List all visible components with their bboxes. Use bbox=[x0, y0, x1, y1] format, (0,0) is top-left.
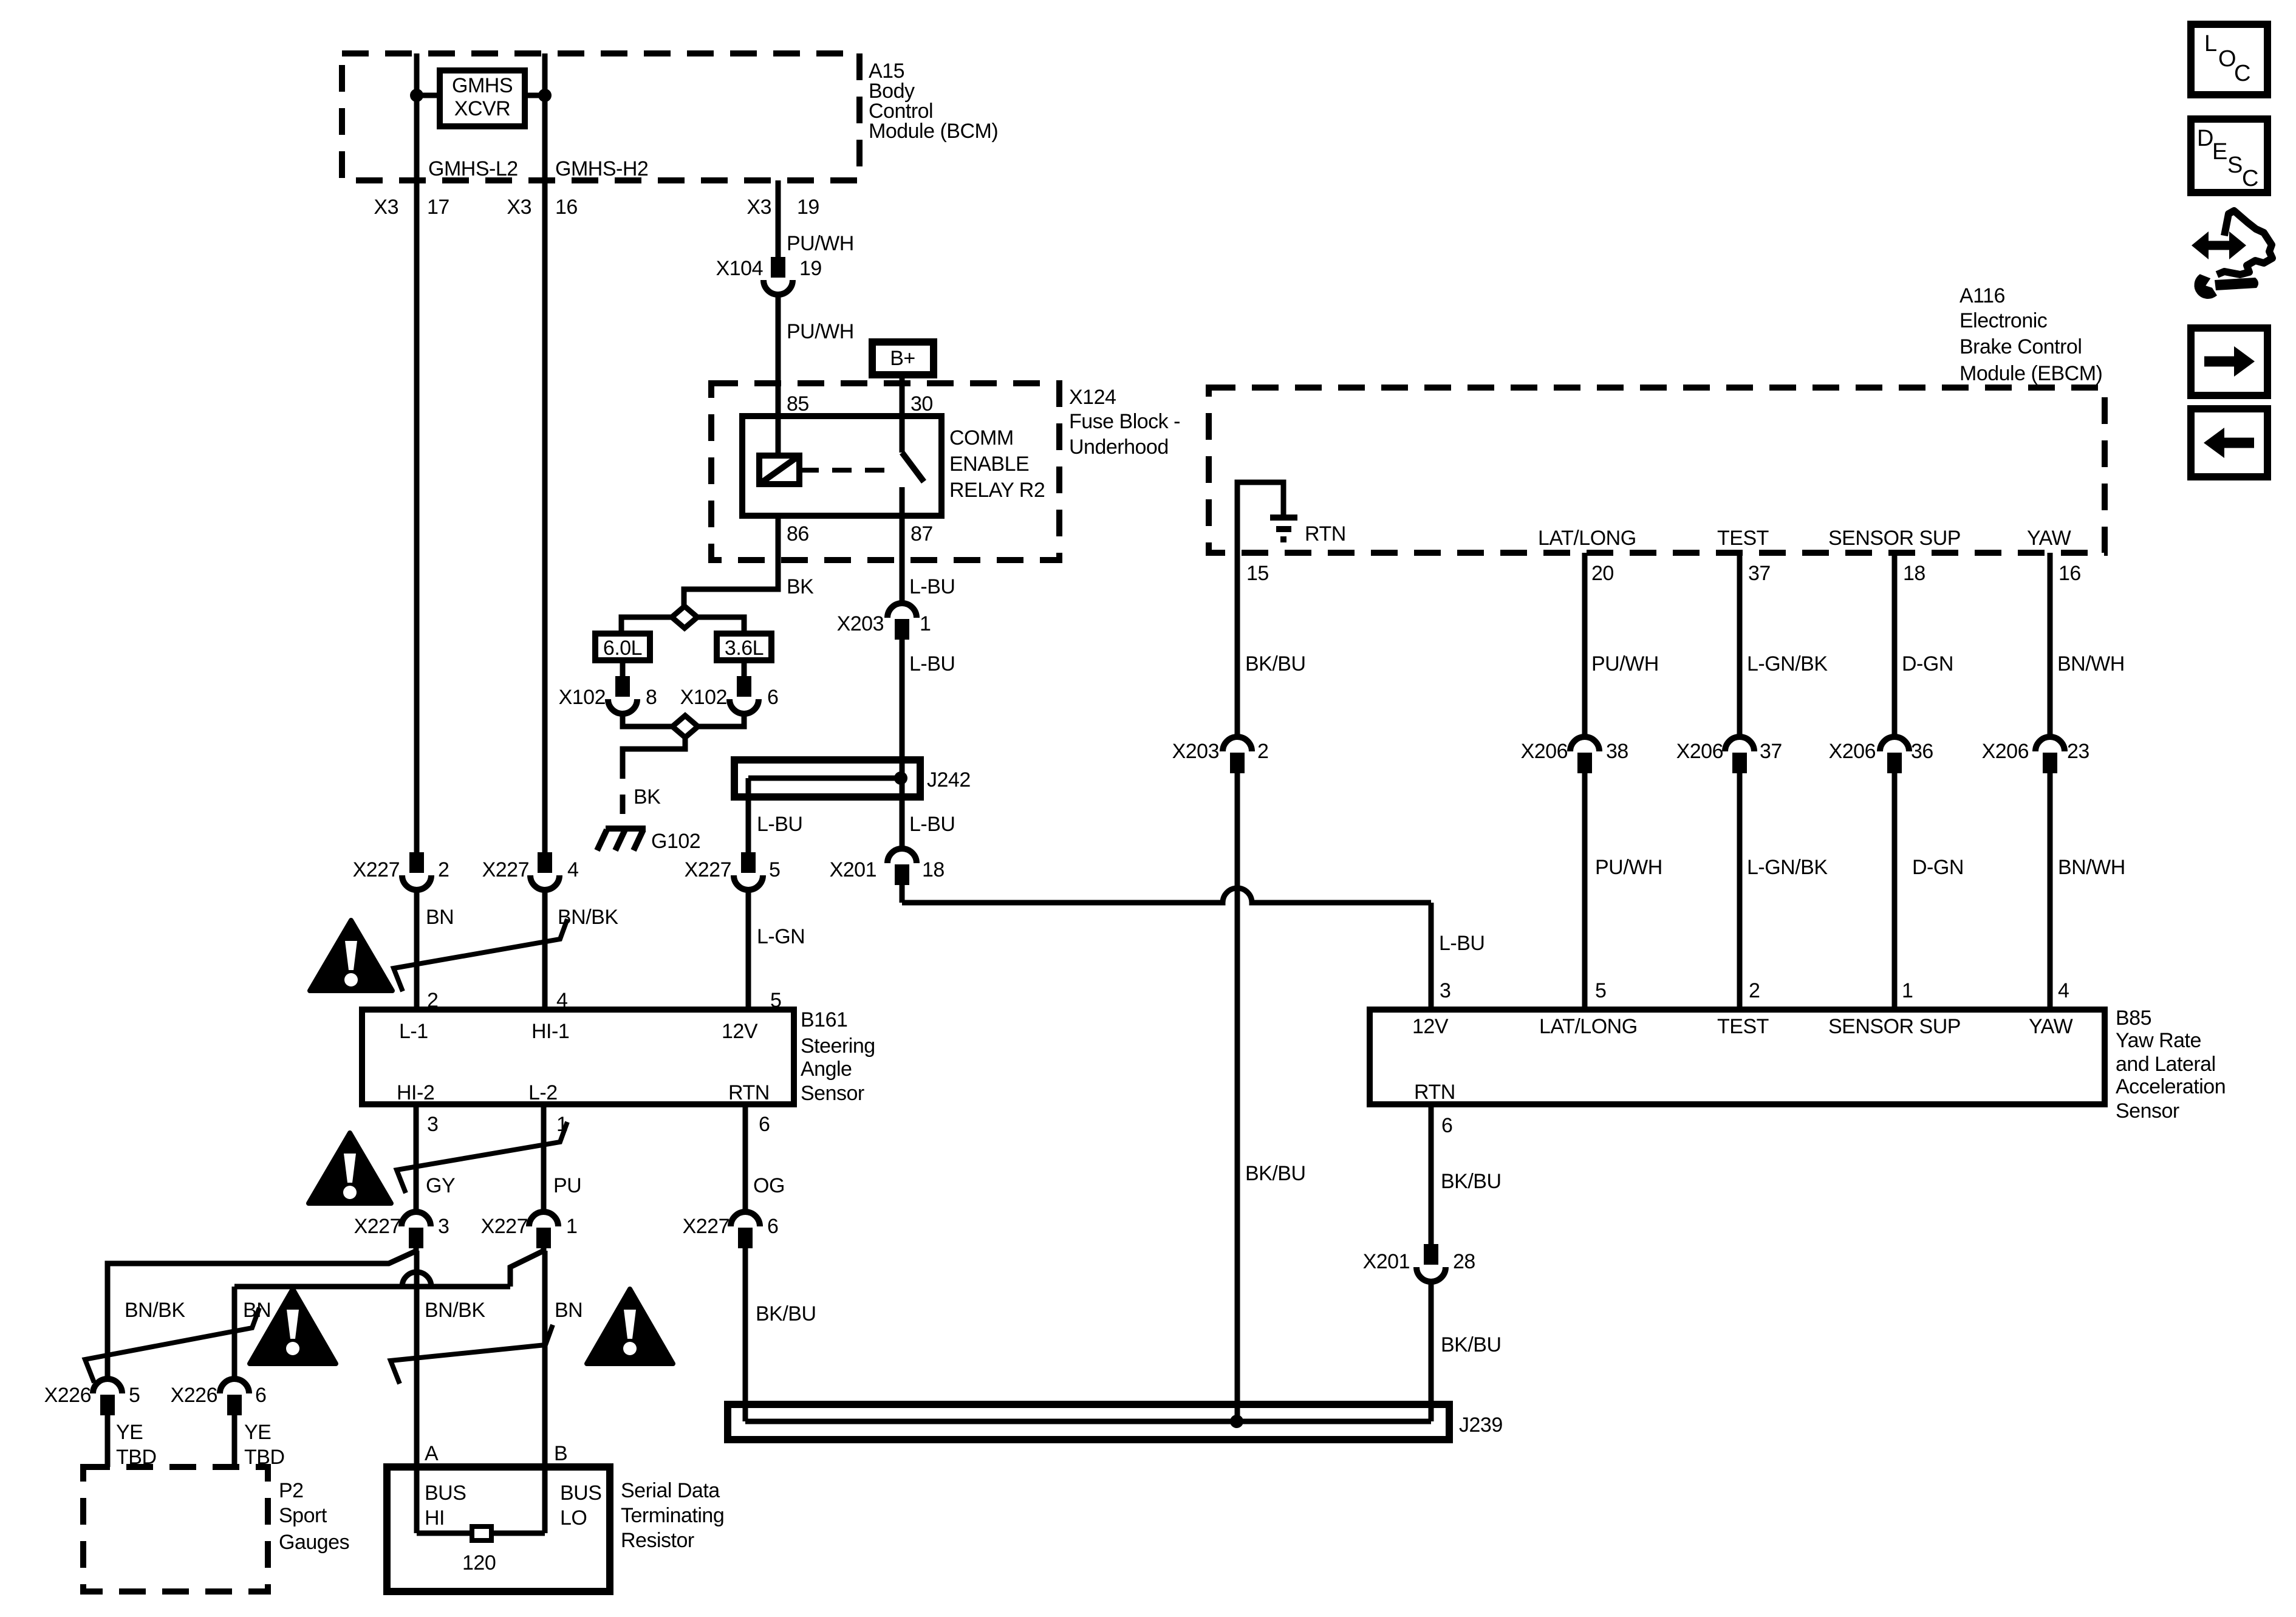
connector X206 pin 36 bbox=[1880, 737, 1909, 751]
svg-text:J239: J239 bbox=[1459, 1414, 1503, 1437]
svg-text:4: 4 bbox=[567, 858, 578, 881]
wire D-GN EBCM 18 to X206 pin 36 bbox=[1892, 553, 1898, 738]
connector X206 pin 37 bbox=[1725, 737, 1754, 751]
svg-text:BN/WH: BN/WH bbox=[2057, 652, 2125, 675]
connector X206 pin 23 bbox=[2035, 737, 2065, 751]
EBCM internal RTN wire to ground bbox=[1237, 482, 1283, 553]
option box 6.0L bbox=[595, 634, 650, 660]
svg-text:6: 6 bbox=[1441, 1114, 1452, 1137]
svg-text:BUS: BUS bbox=[560, 1482, 601, 1505]
connector X206 pin 38 bbox=[1570, 737, 1599, 751]
svg-text:BN/BK: BN/BK bbox=[425, 1299, 485, 1322]
wire BK/BU yaw RTN to X201 pin 28 bbox=[1429, 1104, 1434, 1245]
junction dot J242 bbox=[894, 771, 907, 785]
label X203 2 bbox=[1172, 740, 1269, 763]
connector X201 pin 28 bbox=[1424, 1244, 1438, 1265]
svg-text:6: 6 bbox=[255, 1384, 266, 1407]
wire BN/BK X227-3 main to resistor A bbox=[414, 1251, 420, 1533]
pin name BUS LO bbox=[560, 1482, 601, 1530]
svg-text:L-BU: L-BU bbox=[757, 813, 802, 836]
relay coil bbox=[759, 456, 799, 484]
svg-text:L-2: L-2 bbox=[528, 1081, 558, 1104]
wire BN X227-2 to steering L-1 bbox=[414, 892, 420, 1010]
wire PU/WH EBCM 20 to X206 pin 38 bbox=[1582, 553, 1588, 738]
connector X226 pin 6 bbox=[220, 1379, 249, 1393]
wire B+ to relay pin 30 bbox=[900, 375, 905, 453]
wire L-BU X201-18 across to yaw sensor 12V (hops BK/BU) bbox=[902, 887, 1431, 1010]
svg-text:BK/BU: BK/BU bbox=[1245, 1162, 1306, 1185]
label A116 Electronic Brake Control Module (EBCM) bbox=[1959, 284, 2102, 385]
svg-text:16: 16 bbox=[2059, 562, 2081, 585]
wire PU/WH X206-38 to yaw LAT/LONG bbox=[1582, 776, 1588, 1010]
svg-text:and Lateral: and Lateral bbox=[2116, 1053, 2216, 1076]
label X104 19 bbox=[716, 257, 822, 280]
wire L-BU J242 left branch to X227 pin 5 bbox=[746, 778, 751, 852]
label X227 5 bbox=[685, 858, 781, 881]
connector X227 pin 1 bbox=[529, 1212, 558, 1226]
svg-text:X206: X206 bbox=[1829, 740, 1876, 763]
connector X201 pin 18 bbox=[887, 849, 917, 863]
component B85 Yaw Rate and Lateral Acceleration Sensor box bbox=[1370, 1010, 2105, 1104]
svg-text:X206: X206 bbox=[1982, 740, 2029, 763]
svg-text:86: 86 bbox=[787, 522, 809, 545]
svg-text:5: 5 bbox=[769, 858, 780, 881]
wire PU/WH BCM X3-19 to X104 bbox=[776, 180, 781, 257]
svg-text:3: 3 bbox=[438, 1215, 449, 1238]
svg-text:Gauges: Gauges bbox=[279, 1531, 349, 1554]
svg-text:PU/WH: PU/WH bbox=[1595, 856, 1662, 879]
svg-text:L-GN: L-GN bbox=[757, 925, 805, 948]
svg-text:17: 17 bbox=[427, 196, 449, 219]
wire BK splice to ground G102 (dashed) bbox=[623, 737, 685, 827]
svg-text:C: C bbox=[2242, 166, 2258, 191]
label X206 23 bbox=[1982, 740, 2089, 763]
svg-text:87: 87 bbox=[911, 522, 933, 545]
wire BN/BK X227-4 to steering HI-1 bbox=[542, 892, 548, 1010]
junction block J239 bbox=[728, 1404, 1449, 1440]
wire BN X227-1 main to resistor B bbox=[542, 1251, 548, 1533]
wire 3.6L to X102 pin 6 bbox=[742, 660, 747, 676]
icon LOC box bbox=[2191, 24, 2267, 95]
svg-text:COMM: COMM bbox=[949, 426, 1014, 450]
svg-text:Fuse Block -: Fuse Block - bbox=[1069, 410, 1180, 433]
svg-text:PU/WH: PU/WH bbox=[787, 232, 854, 255]
wire L-GN/BK EBCM 37 to X206 pin 37 bbox=[1737, 553, 1743, 738]
label X124 Fuse Block - Underhood bbox=[1069, 386, 1180, 459]
svg-text:L-1: L-1 bbox=[399, 1020, 428, 1043]
twisted pair symbol 1 bbox=[394, 919, 567, 991]
wire PU/WH X104 to relay coil pin 85 bbox=[776, 297, 781, 456]
svg-text:37: 37 bbox=[1748, 562, 1771, 585]
wire to 6.0L option bbox=[621, 617, 672, 635]
svg-text:OG: OG bbox=[753, 1174, 785, 1197]
svg-text:X227: X227 bbox=[481, 1215, 528, 1238]
svg-text:YE: YE bbox=[116, 1421, 143, 1444]
svg-text:LAT/LONG: LAT/LONG bbox=[1539, 1015, 1638, 1038]
svg-text:TEST: TEST bbox=[1717, 1015, 1769, 1038]
svg-text:YAW: YAW bbox=[2027, 527, 2071, 550]
svg-text:BN: BN bbox=[555, 1299, 583, 1322]
svg-text:C: C bbox=[2234, 61, 2250, 86]
svg-text:O: O bbox=[2218, 46, 2236, 72]
icon back arrow box bbox=[2191, 409, 2267, 477]
svg-text:X206: X206 bbox=[1521, 740, 1568, 763]
svg-text:X206: X206 bbox=[1676, 740, 1723, 763]
svg-text:6: 6 bbox=[767, 686, 778, 709]
svg-text:8: 8 bbox=[646, 686, 657, 709]
svg-text:XCVR: XCVR bbox=[454, 97, 510, 120]
svg-text:RTN: RTN bbox=[1414, 1081, 1455, 1104]
svg-text:X3: X3 bbox=[507, 196, 531, 219]
svg-text:2: 2 bbox=[438, 858, 449, 881]
wire L-BU X203-1 to J242 bbox=[900, 642, 905, 778]
wire label YE TBD right bbox=[244, 1421, 285, 1469]
junction dot GMHS-H2 to XCVR bbox=[525, 89, 552, 102]
svg-text:6.0L: 6.0L bbox=[603, 637, 642, 660]
svg-text:Yaw Rate: Yaw Rate bbox=[2116, 1029, 2201, 1052]
svg-text:2: 2 bbox=[1257, 740, 1268, 763]
connector X203 pin 2 bbox=[1223, 737, 1252, 751]
svg-text:L-BU: L-BU bbox=[909, 575, 955, 598]
svg-text:Module (EBCM): Module (EBCM) bbox=[1959, 362, 2102, 385]
svg-text:19: 19 bbox=[797, 196, 819, 219]
svg-text:BN/BK: BN/BK bbox=[125, 1299, 185, 1322]
svg-text:GY: GY bbox=[426, 1174, 455, 1197]
wire BK/BU EBCM 15 to X203 pin 2 bbox=[1235, 553, 1240, 738]
svg-text:E: E bbox=[2212, 139, 2227, 165]
svg-text:L-BU: L-BU bbox=[1439, 932, 1485, 955]
svg-text:X124: X124 bbox=[1069, 386, 1116, 409]
svg-text:RTN: RTN bbox=[728, 1081, 770, 1104]
label B85 Yaw Rate and Lateral Acceleration Sensor bbox=[2116, 1007, 2226, 1123]
label X102 6 bbox=[680, 686, 779, 709]
svg-text:PU/WH: PU/WH bbox=[1591, 652, 1659, 675]
svg-text:Underhood: Underhood bbox=[1069, 436, 1169, 459]
svg-text:X102: X102 bbox=[559, 686, 606, 709]
label X102 8 bbox=[559, 686, 657, 709]
svg-text:Steering: Steering bbox=[801, 1034, 875, 1058]
module P2 Sport Gauges dashed outline bbox=[83, 1467, 268, 1591]
connector X227 pin 2 bbox=[409, 852, 424, 873]
label X206 38 bbox=[1521, 740, 1628, 763]
label X227 3 bbox=[354, 1215, 449, 1238]
svg-text:Serial Data: Serial Data bbox=[621, 1479, 720, 1502]
svg-text:L-BU: L-BU bbox=[909, 813, 955, 836]
connector X227 pin 6 bbox=[731, 1212, 760, 1226]
relay coil-to-switch dashed link bbox=[799, 468, 892, 473]
svg-text:X227: X227 bbox=[482, 858, 529, 881]
wire GMHS-H2 (BN/BK) BCM X3-16 down to X227 pin 4 bbox=[542, 53, 548, 852]
svg-text:J242: J242 bbox=[927, 768, 971, 791]
svg-text:Resistor: Resistor bbox=[621, 1529, 694, 1552]
svg-text:4: 4 bbox=[2058, 979, 2069, 1002]
connector X102 pin 6 bbox=[737, 676, 751, 697]
svg-text:3: 3 bbox=[1440, 979, 1450, 1002]
wire BK/BU X201-28 to J239 bbox=[1429, 1284, 1434, 1421]
wire L-BU relay pin 87 to X203 pin 1 bbox=[900, 516, 905, 604]
label X227 1 bbox=[481, 1215, 578, 1238]
svg-text:12V: 12V bbox=[722, 1020, 758, 1043]
svg-text:BK/BU: BK/BU bbox=[756, 1302, 816, 1325]
svg-text:23: 23 bbox=[2067, 740, 2089, 763]
label X226 5 bbox=[44, 1384, 140, 1407]
wire L-BU J242 down to X201 pin 18 bbox=[900, 778, 905, 850]
svg-text:Angle: Angle bbox=[801, 1058, 852, 1081]
svg-text:LAT/LONG: LAT/LONG bbox=[1538, 527, 1636, 550]
component Serial Data Terminating Resistor box bbox=[387, 1467, 610, 1591]
svg-text:HI: HI bbox=[425, 1506, 445, 1530]
wire GMHS-L2 (BN) BCM X3-17 down to X227 pin 2 bbox=[414, 53, 420, 852]
svg-text:L-GN/BK: L-GN/BK bbox=[1747, 652, 1828, 675]
svg-text:LO: LO bbox=[560, 1506, 587, 1530]
svg-text:1: 1 bbox=[920, 612, 931, 635]
svg-text:Module (BCM): Module (BCM) bbox=[869, 120, 998, 143]
wire YE/TBD X226-5 to P2 bbox=[105, 1418, 111, 1467]
wire 6.0L to X102 pin 8 bbox=[620, 660, 626, 676]
icon harness routing (arrows and wrench) bbox=[2192, 211, 2272, 298]
svg-text:X227: X227 bbox=[354, 1215, 401, 1238]
svg-text:5: 5 bbox=[129, 1384, 140, 1407]
svg-text:HI-1: HI-1 bbox=[531, 1020, 569, 1043]
svg-text:37: 37 bbox=[1760, 740, 1782, 763]
icon DESC box bbox=[2191, 119, 2267, 193]
svg-text:L-GN/BK: L-GN/BK bbox=[1747, 856, 1828, 879]
svg-text:G102: G102 bbox=[651, 830, 700, 853]
svg-text:TEST: TEST bbox=[1717, 527, 1769, 550]
svg-text:BK/BU: BK/BU bbox=[1441, 1170, 1502, 1193]
svg-text:X203: X203 bbox=[837, 612, 884, 635]
svg-text:YAW: YAW bbox=[2029, 1015, 2073, 1038]
svg-text:120: 120 bbox=[462, 1551, 496, 1574]
svg-text:PU/WH: PU/WH bbox=[787, 320, 854, 343]
label X203 1 bbox=[837, 612, 931, 635]
svg-text:BK: BK bbox=[634, 785, 661, 808]
label X206 36 bbox=[1829, 740, 1933, 763]
svg-text:B161: B161 bbox=[801, 1008, 847, 1031]
svg-text:YE: YE bbox=[244, 1421, 271, 1444]
wire L-GN/BK X206-37 to yaw TEST bbox=[1737, 776, 1743, 1010]
svg-text:3: 3 bbox=[427, 1113, 438, 1136]
svg-text:28: 28 bbox=[1453, 1250, 1475, 1273]
svg-text:38: 38 bbox=[1606, 740, 1628, 763]
svg-text:X201: X201 bbox=[1363, 1250, 1410, 1273]
svg-text:D: D bbox=[2197, 126, 2213, 151]
junction block J242 bbox=[734, 760, 920, 797]
svg-text:X203: X203 bbox=[1172, 740, 1219, 763]
wire GY steering HI-2 to X227 pin 3 bbox=[414, 1104, 419, 1213]
label Serial Data Terminating Resistor bbox=[621, 1479, 724, 1552]
connector X203 pin 1 bbox=[887, 603, 917, 618]
svg-text:2: 2 bbox=[1749, 979, 1760, 1002]
svg-text:X227: X227 bbox=[353, 858, 400, 881]
svg-text:36: 36 bbox=[1911, 740, 1933, 763]
module A116 EBCM dashed outline bbox=[1209, 388, 2105, 553]
wire OG steering RTN to X227 pin 6 bbox=[743, 1104, 748, 1213]
warning triangle 3 bbox=[250, 1289, 336, 1364]
splice diamond lower bbox=[672, 716, 698, 737]
svg-text:X201: X201 bbox=[830, 858, 876, 881]
svg-text:BK/BU: BK/BU bbox=[1441, 1333, 1502, 1356]
connector X227 pin 4 bbox=[538, 852, 552, 873]
twisted pair symbol 3 bbox=[85, 1308, 259, 1383]
connector X227 pin 5 bbox=[741, 852, 756, 873]
svg-text:BUS: BUS bbox=[425, 1482, 466, 1505]
svg-text:SENSOR SUP: SENSOR SUP bbox=[1828, 527, 1961, 550]
resistor element 120 ohm bbox=[417, 1526, 545, 1540]
svg-text:RELAY R2: RELAY R2 bbox=[949, 479, 1045, 502]
svg-text:16: 16 bbox=[555, 196, 578, 219]
svg-text:D-GN: D-GN bbox=[1912, 856, 1964, 879]
svg-text:X3: X3 bbox=[374, 196, 398, 219]
connector X227 pin 3 bbox=[401, 1212, 431, 1226]
junction dot GMHS-L2 to XCVR bbox=[410, 89, 440, 102]
svg-text:12V: 12V bbox=[1412, 1015, 1449, 1038]
svg-text:30: 30 bbox=[911, 392, 933, 415]
svg-text:SENSOR SUP: SENSOR SUP bbox=[1828, 1015, 1961, 1038]
wire BN/WH X206-23 to yaw YAW bbox=[2048, 776, 2053, 1010]
svg-text:X226: X226 bbox=[171, 1384, 217, 1407]
svg-text:B+: B+ bbox=[890, 347, 915, 370]
svg-text:20: 20 bbox=[1591, 562, 1614, 585]
svg-text:BK: BK bbox=[787, 575, 814, 598]
svg-text:19: 19 bbox=[799, 257, 822, 280]
pin label X3 19 bbox=[747, 196, 819, 219]
svg-text:85: 85 bbox=[787, 392, 809, 415]
svg-text:Brake Control: Brake Control bbox=[1959, 335, 2082, 358]
label B161 Steering Angle Sensor bbox=[801, 1008, 875, 1105]
label P2 Sport Gauges bbox=[279, 1479, 349, 1554]
option box 3.6L bbox=[717, 634, 771, 660]
svg-text:Sport: Sport bbox=[279, 1504, 327, 1527]
splice diamond upper (engine variant) bbox=[672, 606, 697, 628]
twisted pair symbol 2 bbox=[397, 1122, 567, 1193]
connector X104 pin 19 bbox=[771, 257, 785, 278]
svg-text:1: 1 bbox=[1902, 979, 1913, 1002]
svg-text:P2: P2 bbox=[279, 1479, 304, 1502]
svg-text:6: 6 bbox=[759, 1113, 770, 1136]
label X201 18 bbox=[830, 858, 945, 881]
component B161 Steering Angle Sensor box bbox=[362, 1010, 794, 1104]
icon forward arrow box bbox=[2191, 328, 2267, 395]
wire D-GN X206-36 to yaw SENSOR SUP bbox=[1892, 776, 1898, 1010]
wire YE/TBD X226-6 to P2 bbox=[232, 1418, 237, 1467]
relay switch arm pin 30 to 87 bbox=[902, 453, 924, 516]
svg-text:X226: X226 bbox=[44, 1384, 91, 1407]
svg-text:X102: X102 bbox=[680, 686, 727, 709]
svg-text:5: 5 bbox=[1595, 979, 1606, 1002]
svg-text:A116: A116 bbox=[1959, 284, 2005, 307]
svg-text:Acceleration: Acceleration bbox=[2116, 1075, 2226, 1098]
pin name BUS HI bbox=[425, 1482, 466, 1530]
pin label X3 17 bbox=[374, 196, 449, 219]
ground symbol inside EBCM bbox=[1270, 518, 1297, 539]
warning triangle 2 bbox=[309, 1133, 391, 1203]
svg-text:BN/WH: BN/WH bbox=[2058, 856, 2125, 879]
wire PU steering L-2 to X227 pin 1 bbox=[541, 1104, 547, 1213]
pin label X3 16 bbox=[507, 196, 577, 219]
label X227 6 bbox=[683, 1215, 779, 1238]
wire to 3.6L option bbox=[697, 617, 744, 635]
svg-text:D-GN: D-GN bbox=[1902, 652, 1953, 675]
label X201 28 bbox=[1363, 1250, 1475, 1273]
wire label YE TBD left bbox=[116, 1421, 157, 1469]
svg-text:3.6L: 3.6L bbox=[725, 637, 764, 660]
relay R2 COMM ENABLE RELAY box bbox=[742, 416, 941, 516]
wire BK/BU X203-2 down to J239 bbox=[1235, 776, 1240, 1421]
svg-text:15: 15 bbox=[1246, 562, 1269, 585]
module A15 Body Control Module (BCM) dashed outline bbox=[342, 53, 859, 180]
wire BN/BK X227-3 branch to X226 pin 5 bbox=[108, 1251, 417, 1380]
svg-text:GMHS-H2: GMHS-H2 bbox=[555, 157, 648, 180]
svg-text:X3: X3 bbox=[747, 196, 771, 219]
svg-text:B: B bbox=[554, 1442, 567, 1465]
svg-text:18: 18 bbox=[1903, 562, 1925, 585]
ground G102 chassis ground symbol bbox=[597, 829, 646, 850]
svg-text:L: L bbox=[2204, 31, 2217, 56]
svg-text:Sensor: Sensor bbox=[801, 1082, 864, 1105]
svg-text:X227: X227 bbox=[683, 1215, 729, 1238]
svg-text:BK/BU: BK/BU bbox=[1245, 652, 1306, 675]
warning triangle 4 bbox=[587, 1289, 673, 1364]
svg-text:GMHS-L2: GMHS-L2 bbox=[428, 157, 518, 180]
svg-text:Terminating: Terminating bbox=[621, 1504, 724, 1527]
label X227 2 bbox=[353, 858, 449, 881]
X124 Fuse Block - Underhood dashed outline bbox=[711, 383, 1059, 560]
wire BK/BU X227-6 to J239 bbox=[743, 1251, 748, 1421]
svg-text:18: 18 bbox=[922, 858, 945, 881]
wire X102-8 to lower splice bbox=[623, 716, 673, 726]
svg-text:Electronic: Electronic bbox=[1959, 309, 2048, 332]
svg-text:ENABLE: ENABLE bbox=[949, 453, 1029, 476]
label X226 6 bbox=[171, 1384, 267, 1407]
wire BN/WH EBCM 16 to X206 pin 23 bbox=[2048, 553, 2053, 738]
label X227 4 bbox=[482, 858, 579, 881]
svg-text:S: S bbox=[2227, 152, 2243, 178]
wire BK relay pin 86 to engine splice bbox=[684, 516, 778, 607]
wire X102-6 to lower splice bbox=[696, 716, 744, 726]
svg-text:1: 1 bbox=[566, 1215, 577, 1238]
svg-text:HI-2: HI-2 bbox=[397, 1081, 434, 1104]
svg-text:RTN: RTN bbox=[1305, 522, 1346, 545]
svg-text:GMHS: GMHS bbox=[452, 74, 513, 97]
svg-text:Sensor: Sensor bbox=[2116, 1099, 2179, 1123]
power feed B+ box bbox=[872, 342, 934, 375]
svg-text:PU: PU bbox=[553, 1174, 581, 1197]
warning triangle 1 bbox=[310, 920, 392, 991]
svg-text:X104: X104 bbox=[716, 257, 763, 280]
svg-text:6: 6 bbox=[767, 1215, 778, 1238]
wire L-GN X227-5 to steering 12V bbox=[746, 892, 751, 1010]
connector X226 pin 5 bbox=[93, 1379, 122, 1393]
label A15 Body Control Module (BCM) bbox=[869, 60, 998, 143]
label X206 37 bbox=[1676, 740, 1782, 763]
svg-text:A: A bbox=[425, 1442, 439, 1465]
twisted pair symbol 4 bbox=[391, 1325, 553, 1384]
wire BN X227-1 branch to X226 pin 6 (hops over) bbox=[234, 1251, 544, 1380]
junction dot J239 bbox=[1230, 1415, 1243, 1428]
connector X102 pin 8 bbox=[615, 676, 630, 697]
svg-text:B85: B85 bbox=[2116, 1007, 2151, 1030]
GMHS XCVR transceiver block bbox=[440, 70, 525, 126]
svg-text:L-BU: L-BU bbox=[909, 652, 955, 675]
label COMM ENABLE RELAY R2 bbox=[949, 426, 1045, 502]
svg-text:X227: X227 bbox=[685, 858, 731, 881]
svg-text:BN: BN bbox=[426, 906, 454, 929]
